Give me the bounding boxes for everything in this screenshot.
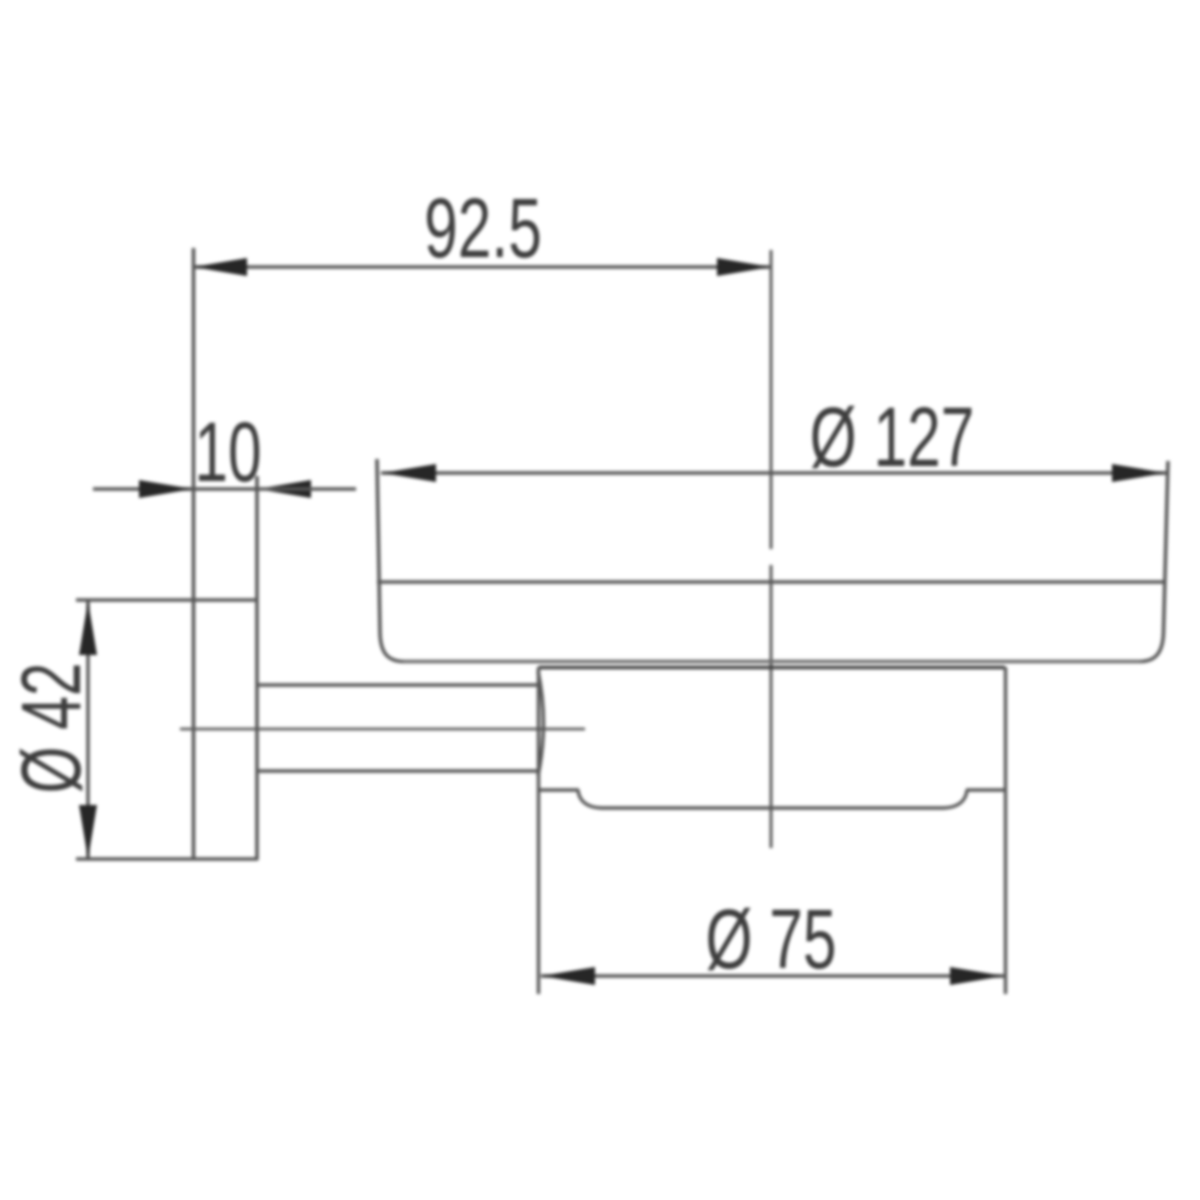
arm rounded end cap arc bbox=[538, 671, 544, 776]
lower holder: right edge / Ø75 right extension bbox=[1004, 667, 1007, 994]
dimension Ø42 bottom arrow bbox=[79, 805, 97, 859]
lower holder: left edge / Ø75 left extension bbox=[537, 667, 540, 994]
dimension Ø127 right arrow bbox=[1112, 464, 1166, 482]
wall plate bottom edge with Ø42 bottom extension bbox=[76, 857, 258, 861]
dish upper: left edge with Ø127 left extension and bottom-left corner bbox=[377, 459, 403, 662]
dimension Ø127 dim line bbox=[381, 471, 1166, 474]
dimension 10 left tail bbox=[93, 487, 193, 490]
dimension Ø42 top arrow bbox=[79, 601, 97, 655]
lower holder: top edge bbox=[539, 666, 1006, 670]
dimension 10 left arrow (tip at plate left) bbox=[139, 480, 193, 498]
dimension Ø75 left arrow bbox=[541, 967, 595, 985]
dish upper: bottom edge bbox=[403, 660, 1141, 663]
dimension Ø75 right arrow bbox=[950, 967, 1004, 985]
lower holder: bottom edge left segment bbox=[539, 788, 580, 792]
dimension Ø42 dim line bbox=[86, 601, 89, 859]
dimension 10 middle segment bbox=[193, 487, 257, 490]
svg-text:Ø 42: Ø 42 bbox=[4, 662, 98, 793]
dish upper: rim line bbox=[377, 580, 1165, 584]
centre line vertical (dish axis / right extension of 92.5) bbox=[770, 250, 773, 549]
dimension 92.5 left arrow bbox=[193, 258, 247, 276]
wall plate right edge / extension of 10 bbox=[255, 476, 259, 860]
extension line left of 92.5 / wall plate left edge bbox=[192, 248, 196, 860]
dish upper: right edge with Ø127 right extension and bottom-right corner bbox=[1141, 461, 1168, 662]
glass dish bottom tray (recessed) bbox=[578, 790, 967, 808]
dimension Ø75 dim line bbox=[541, 974, 1004, 977]
dimension 92.5 dim line bbox=[193, 265, 771, 268]
wall plate top edge with Ø42 top extension bbox=[76, 598, 258, 602]
arm bottom edge bbox=[258, 769, 538, 773]
svg-text:Ø 75: Ø 75 bbox=[705, 892, 836, 986]
svg-text:10: 10 bbox=[194, 405, 261, 499]
dimension Ø127 left arrow bbox=[382, 464, 436, 482]
dimension 10 right arrow (tip at plate right) bbox=[257, 480, 311, 498]
lower holder: bottom edge right segment bbox=[966, 788, 1006, 792]
arm top edge bbox=[258, 683, 538, 687]
svg-text:Ø 127: Ø 127 bbox=[810, 390, 975, 484]
svg-text:92.5: 92.5 bbox=[424, 181, 542, 275]
arm centre line horizontal bbox=[180, 728, 585, 731]
dimension 92.5 right arrow bbox=[717, 258, 771, 276]
dimension 10 right tail bbox=[257, 487, 356, 490]
